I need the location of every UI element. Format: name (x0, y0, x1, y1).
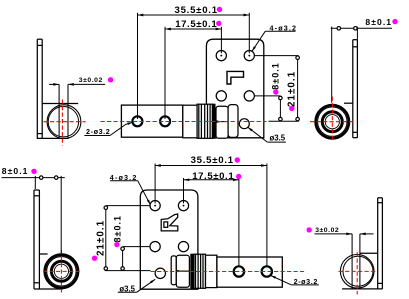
view A offset line left (58, 84, 60, 138)
view E plate hole 2 (4-ø3.2) (178, 201, 188, 211)
view C ext line center up (331, 27, 333, 103)
view F barrel inner circle (343, 256, 373, 286)
view B hex nut cell (216, 106, 228, 138)
view E mounting plate outline (140, 190, 198, 289)
view D magenta dot (31, 169, 36, 174)
view A offset line right (67, 84, 69, 138)
svg-text:3±0.02: 3±0.02 (315, 227, 339, 234)
view A leaf top tangent line (42, 103, 78, 105)
view D ext line center down (60, 176, 62, 254)
view B ext line leaf hole2 up (164, 27, 166, 119)
view B dim text 21±0.1 rotated (287, 71, 298, 107)
view D pin hole (54, 264, 68, 278)
view F dimension 3±0.02 lines (315, 233, 374, 236)
view E hex nut cell (176, 255, 189, 287)
view A bottom tangent line (37, 137, 69, 139)
view B magenta dot 8 (273, 89, 278, 94)
view B pivot hole ø3.5 (239, 119, 249, 129)
view C plate edge-on bar (353, 40, 358, 138)
view B plate hole 1 (4-ø3.2) (216, 51, 226, 61)
view D red centerline horizontal (43, 270, 82, 272)
view B dim text 35.5±0.1 (175, 5, 218, 16)
view E ext leaf hole1 up (238, 178, 240, 267)
view B dim 35.5 line (138, 14, 250, 17)
view E dim text 8±0.1 rotated (112, 215, 122, 242)
svg-text:8±0.1: 8±0.1 (112, 215, 122, 242)
svg-text:8±0.1: 8±0.1 (365, 17, 392, 27)
view E dim text 21±0.1 rotated (96, 220, 107, 256)
view B plate hole 2 (4-ø3.2) (244, 51, 254, 61)
view B dim 21 vertical line (296, 56, 300, 122)
view F magenta dot (307, 227, 312, 232)
view E ext row2 left (123, 246, 150, 248)
svg-text:21±0.1: 21±0.1 (96, 220, 107, 256)
view D ext line bar face (34, 176, 36, 189)
view A vertical plate edge-on bar (37, 39, 42, 138)
view B ext centerline right (269, 120, 299, 122)
view B dim 17.5 line (165, 28, 221, 31)
view E label ø3.5 (118, 279, 155, 293)
view B red centerline (101, 121, 267, 123)
view B dim text 17.5±0.1 (175, 19, 217, 30)
view B dim text 8±0.1 rotated (271, 62, 281, 89)
view A red centerline horizontal (44, 121, 86, 123)
view B plate bend mark (227, 71, 244, 84)
view B label 2-ø3.2 (84, 122, 132, 136)
view E ext plate hole2 down (183, 178, 185, 203)
view B plate hole 3 (4-ø3.2) (216, 91, 226, 101)
view D bottom tangent line (34, 288, 63, 290)
view E dim 17.5 line (184, 178, 239, 181)
view F red centerline vertical (356, 252, 358, 295)
view B ext line plate hole1 up (220, 27, 222, 53)
svg-text:ø3.5: ø3.5 (270, 134, 286, 143)
view E leaf hole 2 (2-ø3.2) (262, 266, 272, 276)
view E dim text 17.5±0.1 (192, 171, 234, 182)
view D dim 8 line (2, 176, 65, 180)
view F offset line right (359, 234, 361, 289)
view E dark ring band (191, 254, 194, 288)
view F dim text 3±0.02 (315, 227, 339, 234)
view B mounting plate outline (206, 39, 263, 138)
view E ext leaf hole2 up (266, 164, 268, 267)
view E knurled knuckle (194, 254, 206, 288)
view F red centerline horizontal (339, 270, 378, 272)
view B dim 8 vertical line (279, 96, 283, 121)
view E leaf collar section (206, 255, 217, 287)
view C ext line bar face (356, 27, 358, 40)
view D knuckle outer ring (45, 255, 78, 288)
view C dim text 8±0.1 (365, 17, 392, 27)
view C leaf tangent line (344, 102, 353, 104)
view D leaf tangent line (39, 253, 47, 255)
view B ext row2 right (255, 95, 281, 97)
view E dim 8 vertical line (121, 247, 125, 271)
svg-text:17.5±0.1: 17.5±0.1 (192, 171, 234, 182)
view B leaf collar section (183, 105, 197, 138)
view E magenta dot 8 (114, 242, 119, 247)
view E label 2-ø3.2 (271, 276, 319, 287)
view B label ø3.5 (248, 127, 286, 142)
view B knurled knuckle (197, 104, 212, 138)
view C pin hole (325, 115, 339, 129)
view D dim text 8±0.1 (2, 166, 29, 176)
view A dim text 3±0.02 (79, 77, 103, 84)
view B magenta dot 17.5 (216, 21, 221, 26)
svg-text:2-ø3.2: 2-ø3.2 (86, 127, 110, 136)
view A dimension 3±0.02 lines (49, 83, 105, 86)
view A magenta dot (108, 77, 113, 82)
view F bottom tangent line (342, 288, 382, 290)
view B collar ring (228, 105, 238, 138)
view B label 4-ø3.2 (252, 24, 297, 52)
svg-text:35.5±0.1: 35.5±0.1 (175, 5, 218, 16)
view E red centerline (151, 271, 305, 273)
view C knuckle circle mid (318, 107, 347, 136)
view D red centerline vertical (60, 250, 62, 293)
view B leaf with holes (121, 105, 182, 137)
view E ext centerline left (105, 270, 151, 272)
view D knuckle circle mid (47, 257, 76, 286)
view C magenta dot (392, 19, 397, 24)
svg-text:17.5±0.1: 17.5±0.1 (175, 19, 217, 30)
view E magenta dot 17.5 (236, 174, 241, 179)
svg-text:35.5±0.1: 35.5±0.1 (191, 155, 234, 166)
view A red centerline vertical (61, 100, 63, 146)
view B ext line plate hole2 up (248, 13, 250, 53)
view D plate edge-on bar (34, 190, 39, 289)
view C red centerline horizontal (310, 121, 354, 123)
view B ext line leaf hole1 up (137, 13, 139, 119)
view E pivot hole ø3.5 (155, 268, 165, 278)
view E leaf hole 1 (2-ø3.2) (234, 266, 244, 276)
view E magenta dot 21 (92, 256, 97, 261)
view B plate hole 4 (4-ø3.2) (244, 91, 254, 101)
view C red centerline vertical (331, 97, 333, 141)
view E label 4-ø3.2 (110, 173, 151, 205)
svg-text:21±0.1: 21±0.1 (287, 71, 298, 107)
view F top tangent line (360, 252, 378, 254)
view E dim 35.5 line (155, 164, 267, 167)
svg-text:8±0.1: 8±0.1 (2, 166, 29, 176)
svg-text:8±0.1: 8±0.1 (271, 62, 281, 89)
view E dim 21 vertical line (104, 206, 108, 271)
view F vertical plate edge-on bar (378, 198, 383, 289)
view E plate hole 4 (4-ø3.2) (178, 242, 188, 252)
view C knuckle outer ring (316, 105, 349, 138)
view E ext plate hole1 up (154, 164, 156, 204)
view B ext row1 right (255, 55, 299, 57)
view B dark ring band (212, 104, 215, 138)
view C dim 8 line (331, 27, 392, 31)
view B magenta dot 35.5 (217, 7, 222, 12)
view E plate bend mark (161, 214, 178, 231)
view E collar ring (171, 256, 176, 285)
view B leaf hole 1 (2-ø3.2) (132, 116, 142, 126)
view E plate hole 3 (4-ø3.2) (150, 242, 160, 252)
view E leaf with holes (217, 257, 282, 287)
view E ext row1 left (106, 205, 150, 207)
view E magenta dot 35.5 (235, 157, 240, 162)
view F barrel outer circle (340, 254, 374, 288)
view E plate hole 1 (4-ø3.2) (150, 201, 160, 211)
view A barrel outer circle (47, 105, 81, 139)
view E dim text 35.5±0.1 (191, 155, 234, 166)
view F offset line left (351, 234, 353, 289)
view B magenta dot 21 (289, 106, 294, 111)
view C nut inner ring (322, 112, 342, 132)
view A barrel inner circle (48, 107, 78, 137)
view B leaf hole 2 (2-ø3.2) (160, 116, 170, 126)
view D nut inner ring (51, 261, 71, 281)
svg-text:3±0.02: 3±0.02 (79, 77, 103, 84)
